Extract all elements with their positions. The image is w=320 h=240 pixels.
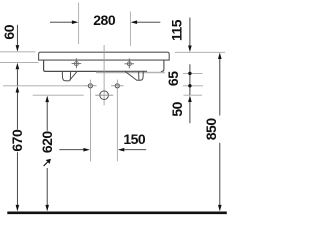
- right extension line drain level: [184, 94, 203, 96]
- dim 60 lower arrow: [16, 63, 20, 70]
- right fitting crosshair: [125, 58, 135, 68]
- left fitting crosshair: [72, 58, 82, 68]
- right hook inner wall: [138, 72, 140, 80]
- basin underside shadow bar: [96, 72, 165, 74]
- dim 670 bottom arrow: [16, 152, 18, 205]
- dim 850 bottom arrow: [219, 143, 221, 206]
- right extension line basin underside: [183, 72, 203, 74]
- svg-text:115: 115: [169, 19, 185, 41]
- dim 150 right arrow: [118, 148, 125, 152]
- vertical centerline axis: [103, 45, 105, 105]
- washbasin body right edge: [161, 60, 164, 71]
- dim 60 upper arrow: [16, 25, 18, 45]
- drain hole circle: [100, 91, 109, 100]
- svg-text:850: 850: [203, 118, 219, 141]
- washbasin rim (front view): [39, 52, 170, 60]
- dim 280 left arrow: [50, 21, 72, 23]
- drain horizontal crosshair: [95, 94, 113, 96]
- washbasin body left edge and bottom: [44, 60, 147, 71]
- left extension line drain level: [33, 94, 84, 96]
- left extension line fixing holes level: [3, 85, 84, 87]
- floor line: [7, 212, 227, 215]
- svg-text:280: 280: [93, 12, 116, 28]
- dim 115 arrow line: [189, 18, 191, 46]
- dim 620 top arrow: [45, 96, 49, 103]
- left extension line 60 bottom: [0, 62, 39, 64]
- svg-text:65: 65: [165, 71, 181, 86]
- dim 150 left arrow: [59, 149, 83, 151]
- dim 280 left extension line: [78, 3, 80, 45]
- right fixing hole: [115, 84, 119, 88]
- dim 670 top arrow: [16, 86, 20, 93]
- dim 850 top arrow: [218, 53, 222, 60]
- left fixing hole: [88, 84, 92, 88]
- dim 280 right arrow: [137, 21, 160, 23]
- adjustable height arrow: [44, 162, 48, 166]
- right mounting hook: [125, 72, 143, 81]
- left hook inner wall: [69, 72, 71, 81]
- svg-text:670: 670: [9, 129, 25, 152]
- dim 280 right extension line: [129, 12, 131, 46]
- right extension line rim top level: [175, 51, 226, 53]
- svg-text:50: 50: [169, 101, 185, 116]
- right extension line fixing holes: [183, 85, 203, 87]
- dim 50 arrow line: [188, 96, 192, 103]
- svg-text:60: 60: [1, 24, 17, 39]
- svg-text:620: 620: [39, 131, 55, 154]
- svg-text:150: 150: [123, 131, 146, 147]
- right fixing hole crosshair + extension down: [111, 85, 123, 87]
- left mounting hook: [62, 72, 77, 81]
- left fixing hole crosshair + extension down: [84, 85, 96, 87]
- left extension line rim top: [0, 51, 36, 53]
- dim 65 line with dot terminators: [189, 64, 191, 95]
- dim 620 bottom arrow: [46, 168, 48, 205]
